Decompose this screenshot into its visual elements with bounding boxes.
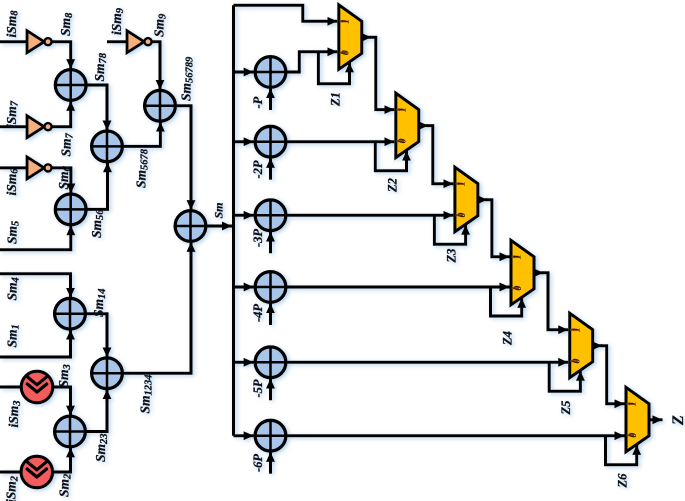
svg-text:Sm5678: Sm5678 <box>134 148 151 188</box>
wire Z5 output to Z6 input 1 <box>601 346 625 404</box>
wire Sm7 <box>52 101 71 127</box>
label Sm1 <box>5 324 22 347</box>
label Sm2 <box>57 473 74 497</box>
svg-text:0: 0 <box>572 359 583 364</box>
wire iSm9 input <box>107 40 127 43</box>
wire Z output <box>650 418 663 421</box>
svg-text:Z1: Z1 <box>328 92 342 107</box>
wire iSm8 input <box>0 40 27 43</box>
svg-text:Sm1: Sm1 <box>5 324 22 347</box>
svg-text:Sm56: Sm56 <box>89 209 106 238</box>
wire iSm2 input <box>0 471 21 474</box>
adder Sm <box>175 211 206 242</box>
mux Z6 <box>626 387 649 452</box>
svg-text:1: 1 <box>571 327 582 332</box>
svg-text:0: 0 <box>398 139 409 144</box>
svg-text:1: 1 <box>513 254 524 259</box>
wire Sm14 <box>85 314 107 358</box>
svg-text:iSm7: iSm7 <box>4 100 21 128</box>
svg-text:Sm78: Sm78 <box>92 52 109 81</box>
label Sm <box>212 202 226 218</box>
wire Z3 select loop <box>434 215 465 244</box>
svg-text:Sm14: Sm14 <box>91 288 108 317</box>
label Z <box>670 415 685 426</box>
wire bus tap to adder P2 <box>234 140 254 143</box>
svg-text:iSm3: iSm3 <box>6 400 23 427</box>
svg-text:-2P: -2P <box>251 160 265 178</box>
label Z4 <box>501 331 515 346</box>
svg-text:Sm23: Sm23 <box>93 433 110 462</box>
wire bus tap to adder P5 <box>234 361 254 364</box>
wire Z5 output arrow <box>593 344 602 347</box>
wire Sm3 <box>53 387 71 416</box>
svg-text:1: 1 <box>628 401 639 406</box>
wire Z3 output to Z4 input 1 <box>486 200 510 257</box>
inverter iSm7 <box>27 116 52 138</box>
svg-text:1: 1 <box>457 181 468 186</box>
svg-text:Z: Z <box>670 415 685 426</box>
label Z5 <box>559 401 573 416</box>
svg-text:0: 0 <box>628 433 639 438</box>
label -3P <box>251 229 265 247</box>
svg-text:0: 0 <box>513 286 524 291</box>
mux Z4 <box>511 240 534 304</box>
label Sm78 <box>92 52 109 81</box>
label Sm6 <box>56 165 73 189</box>
wire bus tap to adder P3 <box>234 214 254 217</box>
wire Z3 output arrow <box>478 198 487 201</box>
shifter iSm2 <box>21 456 53 488</box>
mux Z3 <box>455 167 478 232</box>
inverter iSm8 <box>27 31 52 53</box>
wire adder P1 out to Z1 input 0 <box>286 52 337 72</box>
wire Sm8 <box>52 42 71 69</box>
wire -5P stub <box>269 379 272 401</box>
wire bus top bypass to Z1 input 1 <box>234 5 338 21</box>
wire Z2 select loop <box>375 142 406 171</box>
wire Z1 output arrow <box>362 36 371 39</box>
wire Sm5678 out <box>122 122 160 147</box>
svg-text:Sm: Sm <box>212 202 226 218</box>
label Sm5678 <box>134 148 151 188</box>
wire adder P4 out to Z4 input 0 <box>286 286 510 289</box>
adder Sm14 <box>55 298 86 329</box>
inverter iSm9 <box>127 31 152 53</box>
wire -6P stub <box>269 452 272 474</box>
label Sm23 <box>93 433 110 462</box>
wire Sm6 <box>52 168 71 194</box>
adder P4 <box>255 272 286 303</box>
mux Z2 <box>396 93 419 158</box>
adder Sm5678 <box>92 131 123 162</box>
adder P3 <box>255 200 286 231</box>
svg-text:Sm5: Sm5 <box>5 221 22 244</box>
label Sm9 <box>152 13 169 37</box>
svg-text:iSm9: iSm9 <box>109 7 126 35</box>
label Z1 <box>328 92 342 107</box>
svg-text:iSm2: iSm2 <box>4 475 21 501</box>
wire Z2 output to Z3 input 1 <box>427 126 454 184</box>
adder Sm78 <box>55 70 86 101</box>
wire -P stub <box>269 88 272 110</box>
wire Sm4 <box>0 274 71 298</box>
mux Z1 <box>339 5 362 70</box>
label -4P <box>251 304 265 322</box>
wire Sm5 <box>0 225 71 249</box>
label iSm3 <box>6 400 23 427</box>
wire Z1 select loop <box>318 52 349 84</box>
adder Sm23 <box>55 416 86 447</box>
label iSm2 <box>4 475 21 501</box>
label Sm8 <box>58 12 75 36</box>
label -6P <box>251 454 265 472</box>
label Z2 <box>385 178 399 193</box>
wire Z5 select loop <box>549 362 580 391</box>
svg-text:1: 1 <box>341 19 352 24</box>
adder P2 <box>255 126 286 157</box>
svg-text:Z5: Z5 <box>559 401 573 416</box>
wire Z4 select loop <box>491 287 522 316</box>
adder Sm56789 <box>145 90 176 121</box>
wire Sm78 <box>86 85 107 131</box>
wire Z2 output arrow <box>419 124 428 127</box>
wire Sm1 <box>0 330 71 357</box>
adder Sm1234 <box>92 358 123 389</box>
label Sm7 <box>59 132 76 156</box>
wire Sm1234 <box>122 242 191 373</box>
label iSm9 <box>109 7 126 35</box>
adder P1 <box>255 57 286 88</box>
svg-text:Z3: Z3 <box>444 249 458 264</box>
svg-text:Sm7: Sm7 <box>59 132 76 156</box>
wire adder P3 out to Z3 input 0 <box>286 214 454 217</box>
label Sm3 <box>56 364 73 387</box>
label -5P <box>251 379 265 397</box>
wire bus tap to adder P4 <box>234 286 254 289</box>
svg-text:Sm9: Sm9 <box>152 13 169 37</box>
label Sm1234 <box>138 374 155 413</box>
wire iSm6 input <box>0 166 27 169</box>
label Z6 <box>616 473 630 489</box>
wire Sm56789 out <box>175 106 191 210</box>
wire -4P stub <box>269 303 272 325</box>
mux Z5 <box>570 313 593 378</box>
wire Z4 output to Z5 input 1 <box>542 273 568 330</box>
svg-text:0: 0 <box>457 213 468 218</box>
label -2P <box>251 160 265 178</box>
label Z3 <box>444 249 458 264</box>
svg-text:Sm1234: Sm1234 <box>138 374 155 413</box>
svg-text:iSm8: iSm8 <box>4 10 21 38</box>
svg-text:Z2: Z2 <box>385 178 399 193</box>
svg-text:Z4: Z4 <box>501 331 515 346</box>
wire Z6 select loop <box>606 436 637 465</box>
svg-text:-3P: -3P <box>251 229 265 247</box>
wire bus tap to adder P1 <box>234 71 254 74</box>
svg-text:iSm6: iSm6 <box>4 168 21 196</box>
wire Z4 output arrow <box>535 271 544 274</box>
wire Sm9 <box>152 42 160 90</box>
adder P5 <box>255 347 286 378</box>
wire -2P stub <box>269 158 272 180</box>
label iSm8 <box>4 10 21 38</box>
wire Sm2 <box>53 447 71 472</box>
wire iSm3 input <box>0 386 21 389</box>
label Sm5 <box>5 221 22 244</box>
label iSm6 <box>4 168 21 196</box>
wire bus corner to adder P6 <box>234 434 254 437</box>
wire iSm7 input <box>0 125 27 128</box>
label Sm4 <box>5 277 22 300</box>
wire bus vertical <box>232 5 235 435</box>
svg-text:Sm3: Sm3 <box>56 364 73 387</box>
wire adder P2 out to Z2 input 0 <box>286 140 394 143</box>
wire Sm23 <box>85 389 107 431</box>
svg-text:0: 0 <box>341 50 352 55</box>
label Sm56 <box>89 209 106 238</box>
inverter iSm6 <box>27 157 52 179</box>
svg-text:1: 1 <box>398 107 409 112</box>
adder Sm56 <box>55 194 86 225</box>
wire Z1 output to Z2 input 1 <box>370 37 395 109</box>
wire adder P6 out to Z6 input 0 <box>286 434 625 437</box>
svg-text:Z6: Z6 <box>616 473 630 489</box>
wire Sm output to bus <box>206 225 232 228</box>
svg-text:Sm4: Sm4 <box>5 277 22 300</box>
label iSm7 <box>4 100 21 128</box>
svg-text:Sm2: Sm2 <box>57 473 74 497</box>
svg-text:Sm8: Sm8 <box>58 12 75 36</box>
label Sm56789 <box>179 56 196 101</box>
label -P <box>251 96 265 108</box>
adder P6 <box>255 420 286 451</box>
svg-text:-6P: -6P <box>251 454 265 472</box>
wire adder P5 out to Z5 input 0 <box>286 361 568 364</box>
label Sm14 <box>91 288 108 317</box>
wire Sm56 <box>86 162 107 209</box>
shifter iSm3 <box>21 371 53 403</box>
wire -3P stub <box>269 232 272 254</box>
svg-text:-4P: -4P <box>251 304 265 322</box>
svg-text:Sm56789: Sm56789 <box>179 56 196 101</box>
svg-text:-P: -P <box>251 96 265 108</box>
svg-text:-5P: -5P <box>251 379 265 397</box>
